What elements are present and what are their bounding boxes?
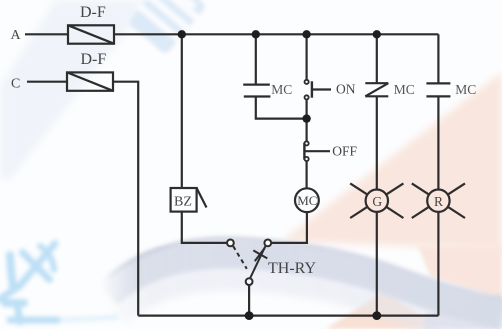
svg-text:G: G — [372, 194, 382, 209]
contact MC a-contact top bar — [426, 82, 450, 84]
switch TH-RY terminal circles — [227, 240, 271, 286]
wire right rail down — [437, 34, 439, 83]
watermark blue-gray band swoosh — [108, 238, 502, 326]
switch TH-RY trip cross — [253, 250, 267, 258]
pushbutton OFF stem to label — [304, 150, 330, 152]
wire lamp R to bottom rail — [437, 212, 439, 316]
wire ON to junction — [306, 99, 308, 118]
fuse F2 diagonal — [67, 72, 113, 90]
buzzer BZ whisker — [197, 188, 207, 208]
contact MC b-contact bottom bar — [365, 95, 388, 97]
watermark pink right region — [282, 72, 502, 250]
wire BZ branch down — [181, 34, 183, 188]
watermark blue-gray band corner fill — [424, 294, 502, 329]
wire b-contact to lamp G — [376, 96, 378, 189]
node bottom rail / TH-RY — [245, 311, 254, 320]
wire holding contact to junction — [256, 96, 307, 118]
svg-text:TH-RY: TH-RY — [268, 260, 316, 277]
svg-text:MC: MC — [455, 82, 476, 97]
wire lamp G to bottom rail — [376, 212, 378, 316]
wire ON branch down — [306, 34, 308, 80]
wire bottom rail — [138, 315, 438, 317]
wire a-contact to lamp R — [437, 96, 439, 189]
pushbutton ON actuator bar — [311, 81, 313, 97]
watermark bottom-left blue glyph — [0, 244, 116, 323]
wire BZ to TH-RY left contact — [182, 212, 227, 243]
wire junction to OFF — [306, 119, 308, 142]
wire MC b-contact branch down — [376, 34, 378, 83]
svg-text:R: R — [434, 194, 443, 209]
fuse F1 D-F box — [68, 25, 114, 43]
wire TH-RY common to bottom rail — [248, 285, 250, 316]
svg-text:OFF: OFF — [332, 144, 357, 159]
watermark pink bottom-right above band — [418, 246, 502, 300]
node ON-OFF junction — [302, 114, 310, 122]
svg-text:BZ: BZ — [174, 195, 192, 210]
contact MC holding top bar — [243, 83, 270, 85]
wire C to left rail — [113, 82, 138, 316]
svg-text:MC: MC — [271, 82, 292, 97]
contact MC b-contact top bar — [365, 82, 388, 84]
pushbutton OFF actuator bar — [303, 143, 305, 160]
fuse F2 D-F box — [67, 72, 113, 90]
svg-text:ON: ON — [336, 82, 356, 97]
watermark top bars logo — [124, 0, 210, 58]
wire C from label to fuse — [27, 81, 67, 83]
pushbutton ON contact circles — [305, 80, 309, 161]
contact MC b-contact diagonal — [365, 83, 388, 96]
contact MC a-contact bottom bar — [426, 95, 450, 97]
wire OFF to MC coil — [306, 161, 308, 189]
switch TH-RY moving contact dashed — [233, 246, 247, 269]
node top rail / BZ — [178, 30, 186, 38]
lamp R circle — [427, 190, 449, 212]
svg-text:MC: MC — [297, 193, 317, 208]
svg-text:MC: MC — [394, 82, 415, 97]
node top rail / b-contact — [373, 30, 381, 38]
lamp G rays — [350, 183, 403, 218]
wire MC coil to TH-RY right contact — [271, 213, 307, 243]
watermark pink bottom-center triangle — [326, 291, 442, 329]
svg-text:C: C — [11, 77, 20, 92]
coil MC circle — [295, 188, 319, 212]
pushbutton ON stem to label — [312, 88, 331, 90]
svg-text:A: A — [11, 28, 22, 43]
buzzer BZ box — [171, 188, 197, 212]
svg-text:D-F: D-F — [81, 51, 107, 68]
contact MC holding bottom bar — [244, 95, 271, 97]
wire A from label to fuse — [25, 33, 68, 35]
lamp R rays — [412, 183, 465, 218]
pushbutton OFF contact circles — [305, 141, 309, 145]
node top rail / ON — [302, 30, 310, 38]
wire top rail — [114, 33, 438, 35]
wire MC holding contact branch down — [255, 34, 257, 84]
svg-text:D-F: D-F — [80, 4, 106, 21]
switch TH-RY moving contact solid — [250, 246, 265, 277]
fuse F1 diagonal — [68, 25, 114, 43]
watermark top-left blue wedge — [0, 0, 152, 180]
node top rail / holding contact — [252, 30, 260, 38]
lamp G circle — [366, 190, 388, 212]
node bottom rail / lamp G — [372, 311, 381, 320]
